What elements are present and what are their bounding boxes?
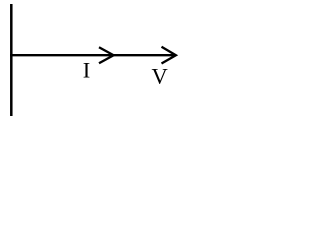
svg-text:I: I — [83, 58, 91, 83]
arrowhead: current direction I — [99, 47, 114, 63]
arrowhead: end of arrow V — [162, 47, 176, 64]
svg-text:V: V — [152, 64, 168, 89]
wire: horizontal arrow shaft — [10, 54, 176, 56]
wire: vertical conductor — [10, 4, 13, 116]
